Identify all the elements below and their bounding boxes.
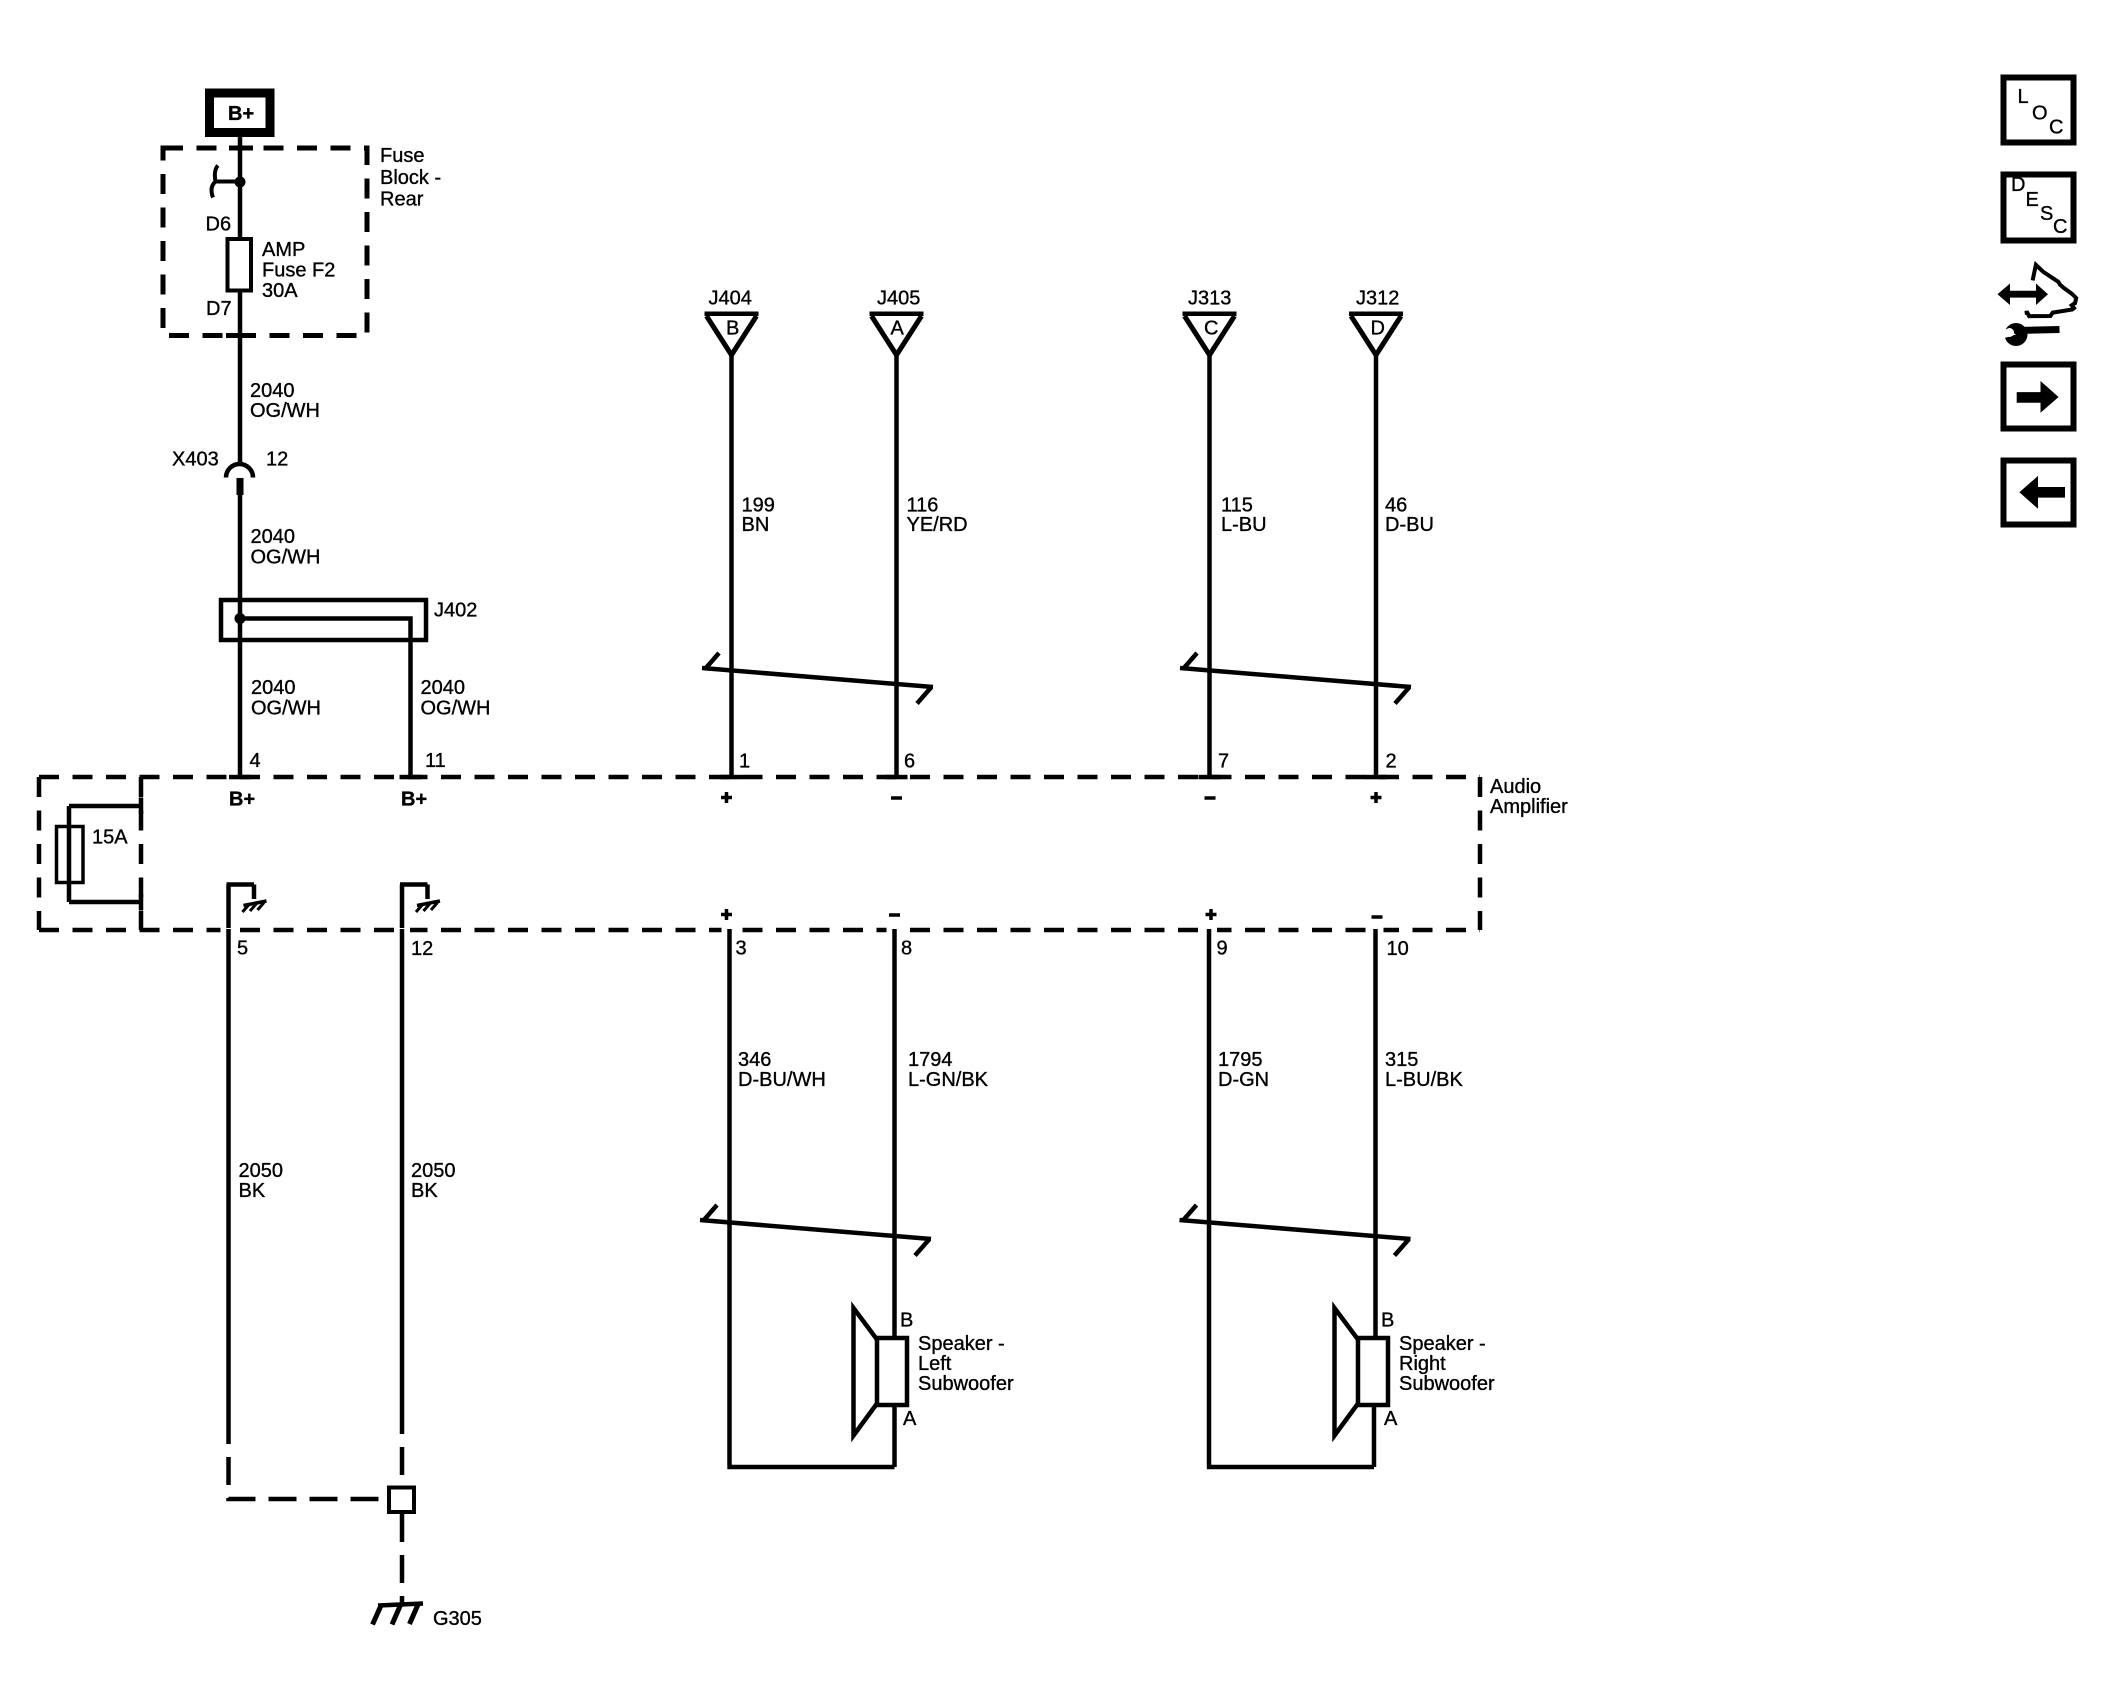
minus mark pin 8 [889,913,900,917]
svg-text:12: 12 [266,449,288,471]
svg-text:2050: 2050 [239,1160,284,1182]
dashed ground path left [229,1416,388,1499]
svg-text:S: S [2040,203,2053,225]
label Fuse Block - Rear [380,145,441,211]
plus mark pin 3 [721,909,732,920]
svg-text:J313: J313 [1188,288,1231,310]
svg-text:A: A [891,318,905,340]
svg-text:Subwoofer: Subwoofer [1399,1373,1495,1395]
svg-text:BN: BN [742,514,770,536]
wire B+ down to fuse F2 [238,135,243,240]
sidebar wrench icon [1998,323,2060,346]
svg-text:4: 4 [250,750,261,772]
junction connector J405 [870,314,924,355]
svg-text:A: A [903,1408,917,1430]
label 2050 BK [239,1160,284,1202]
svg-text:7: 7 [1218,751,1229,773]
svg-text:Speaker -: Speaker - [918,1333,1005,1355]
dashed ground path right [400,1406,405,1603]
plus mark pin 9 [1206,909,1217,920]
svg-text:G305: G305 [433,1608,482,1630]
inline connector X403 pin 12 [226,464,253,495]
svg-text:12: 12 [411,938,433,960]
twisted pair symbol upper right [1180,653,1411,704]
sidebar DESC box [2004,175,2074,241]
wire J404 to amp pin 1 [729,355,734,777]
svg-text:1794: 1794 [908,1049,953,1071]
wire fuse F2 down to X403 [238,291,243,464]
svg-text:2040: 2040 [251,526,296,548]
junction connector J313 [1183,314,1237,355]
svg-text:B+: B+ [228,103,254,125]
svg-text:B+: B+ [229,789,255,811]
twisted pair symbol lower right [1180,1205,1411,1256]
svg-text:O: O [2032,103,2048,125]
minus mark pin 6 [891,796,902,800]
junction connector J404 [705,314,759,355]
label 2040 OG/WH [251,677,321,720]
svg-text:L-BU/BK: L-BU/BK [1385,1069,1463,1091]
wire 2050 BK pin 12 [400,929,405,1406]
svg-text:A: A [1384,1408,1398,1430]
label 346 D-BU/WH [738,1049,826,1091]
svg-text:J402: J402 [434,600,477,622]
label 2040 OG/WH [421,677,491,720]
svg-text:2050: 2050 [411,1160,456,1182]
svg-text:3: 3 [736,938,747,960]
svg-text:Fuse: Fuse [380,145,424,167]
svg-text:B: B [900,1310,913,1332]
svg-text:9: 9 [1217,938,1228,960]
svg-text:346: 346 [738,1049,771,1071]
ground symbol at pin 5 [227,885,267,929]
splice square S305 [389,1488,414,1513]
speaker right subwoofer [1335,1308,1389,1436]
label Speaker - Right Subwoofer [1399,1333,1495,1395]
sidebar car icon outline [2025,265,2077,316]
label 1795 D-GN [1218,1049,1269,1091]
wire J402 to amp pin 4 [238,640,243,777]
svg-text:Left: Left [918,1353,952,1375]
label 115 L-BU [1221,495,1267,537]
label 199 BN [742,495,775,537]
sidebar forward arrow box [2004,365,2074,429]
label 2040 OG/WH [251,526,321,569]
svg-text:B: B [726,318,739,340]
svg-text:Block -: Block - [380,167,441,189]
svg-text:2040: 2040 [250,380,295,402]
svg-text:5: 5 [237,938,248,960]
svg-text:Subwoofer: Subwoofer [918,1373,1014,1395]
twisted pair symbol lower left [700,1205,931,1256]
svg-text:8: 8 [901,938,912,960]
svg-text:OG/WH: OG/WH [251,698,321,720]
minus mark pin 7 [1205,796,1216,800]
twisted pair symbol upper left [702,653,933,704]
svg-text:D-BU/WH: D-BU/WH [738,1069,826,1091]
svg-text:C: C [2053,216,2067,238]
svg-text:Speaker -: Speaker - [1399,1333,1486,1355]
svg-text:E: E [2026,189,2039,211]
wire J313 to amp pin 7 [1207,355,1212,777]
svg-text:315: 315 [1385,1049,1418,1071]
speaker left subwoofer [854,1308,908,1436]
svg-text:L-BU: L-BU [1221,514,1267,536]
wire J312 to amp pin 2 [1374,355,1379,777]
svg-text:OG/WH: OG/WH [250,400,320,422]
svg-text:D7: D7 [206,298,232,320]
label 46 D-BU [1385,495,1434,537]
fuse F2 30A [228,239,252,291]
svg-text:2040: 2040 [251,677,296,699]
plus mark pin 1 [721,792,732,803]
plus mark pin 2 [1371,792,1382,803]
label 315 L-BU/BK [1385,1049,1463,1091]
svg-text:L: L [2018,86,2029,108]
svg-text:J405: J405 [877,288,920,310]
svg-text:J404: J404 [709,288,752,310]
svg-text:OG/WH: OG/WH [251,547,321,569]
svg-text:2040: 2040 [421,677,466,699]
power terminal B+ box [210,93,271,133]
svg-text:B: B [1381,1310,1394,1332]
label 2040 OG/WH [250,380,320,422]
ground G305 [373,1604,424,1625]
svg-text:D: D [2011,174,2025,196]
svg-text:10: 10 [1387,938,1409,960]
svg-text:L-GN/BK: L-GN/BK [908,1069,989,1091]
svg-text:B+: B+ [401,789,427,811]
sidebar LOC box [2004,78,2074,143]
wire X403 to J402 [238,495,243,600]
svg-text:Right: Right [1399,1353,1446,1375]
label 1794 L-GN/BK [908,1049,989,1091]
labels AMP Fuse F2 30A [262,239,335,302]
junction connector J312 [1349,314,1403,355]
svg-text:J312: J312 [1356,288,1399,310]
audio amplifier dashed box [39,777,1480,930]
sidebar back arrow box [2004,461,2074,525]
fuse block rear dashed box [163,146,367,339]
fuse 15A inside amplifier [57,798,142,911]
minus mark pin 10 [1372,915,1383,919]
svg-text:YE/RD: YE/RD [907,514,968,536]
svg-text:D-BU: D-BU [1385,514,1434,536]
svg-text:Fuse F2: Fuse F2 [262,260,335,282]
svg-text:2: 2 [1386,751,1397,773]
svg-text:11: 11 [425,750,446,772]
svg-text:C: C [2049,117,2063,139]
wire amp pin 3 to left speaker A [727,929,894,1467]
label 116 YE/RD [907,495,968,537]
svg-text:C: C [1204,318,1218,340]
junction dot [235,177,246,188]
wire amp pin 10 to right speaker B [1373,929,1378,1338]
svg-text:Audio: Audio [1490,776,1541,798]
ground symbol at pin 12 [400,885,440,929]
svg-text:D: D [1371,318,1385,340]
gaps at bottom pins [221,927,1384,935]
svg-text:BK: BK [411,1180,438,1202]
label Audio Amplifier [1490,776,1568,818]
svg-text:1: 1 [739,751,750,773]
wire amp pin 8 to left speaker B [892,929,897,1338]
wire 2050 BK pin 5 [226,929,231,1416]
svg-text:BK: BK [239,1180,266,1202]
splice pack J402 [221,600,426,640]
svg-text:D6: D6 [206,214,232,236]
svg-text:X403: X403 [172,449,219,471]
terminal hook inside fuse block [212,166,240,198]
svg-text:15A: 15A [92,827,128,849]
svg-text:Rear: Rear [380,189,424,211]
dash pads at top pins [229,775,1387,780]
label 2050 BK [411,1160,456,1202]
svg-text:D-GN: D-GN [1218,1069,1269,1091]
label Speaker - Left Subwoofer [918,1333,1014,1395]
wire amp pin 9 to right speaker A [1207,929,1374,1467]
sidebar car icon double arrow [1998,284,2049,306]
svg-text:Amplifier: Amplifier [1490,796,1568,818]
letters D E S C [2011,174,2067,238]
svg-text:6: 6 [904,751,915,773]
svg-text:OG/WH: OG/WH [421,698,491,720]
letters L O C [2018,86,2064,139]
wire J402 to amp pin 11 [408,640,413,777]
svg-text:1795: 1795 [1218,1049,1263,1071]
svg-text:AMP: AMP [262,239,305,261]
wire J405 to amp pin 6 [894,355,899,777]
svg-text:30A: 30A [262,280,298,302]
